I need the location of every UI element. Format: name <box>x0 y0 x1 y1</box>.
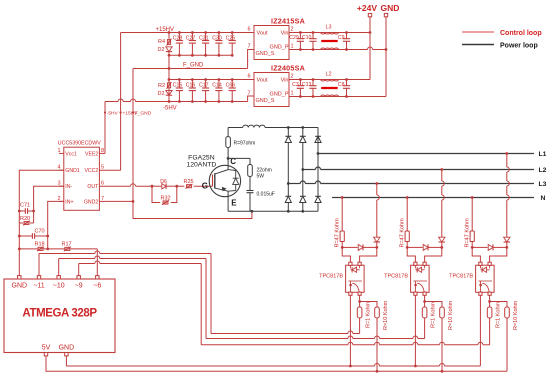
wire R4/D2 column <box>168 33 170 39</box>
wire +15HV left drop to VCC2 <box>120 33 122 171</box>
svg-text:2: 2 <box>291 74 294 80</box>
diode series horizontal #3 <box>472 246 487 248</box>
wire IN+ left <box>48 201 64 249</box>
svg-text:IZ2415SA: IZ2415SA <box>271 16 305 25</box>
wire MCU line 3 upper run <box>78 264 80 276</box>
wire MCU line 1 lower run <box>211 333 348 335</box>
diode bridge lower D4 <box>287 184 289 197</box>
svg-text:UCC5390ECDWV: UCC5390ECDWV <box>58 140 101 146</box>
svg-text:GND_S: GND_S <box>256 98 275 104</box>
svg-text:ATMEGA 328P: ATMEGA 328P <box>22 308 97 320</box>
svg-text:R=1 Kohm: R=1 Kohm <box>365 301 371 328</box>
node -5HV net label <box>104 111 106 113</box>
svg-text:-5HV: -5HV <box>107 111 119 117</box>
pin ~11 (top) <box>37 276 40 279</box>
legend power loop line <box>462 44 494 46</box>
svg-text:~10: ~10 <box>53 283 65 290</box>
svg-text:120ANTD: 120ANTD <box>186 162 216 169</box>
wire R1K to MCU line #3 <box>489 318 491 345</box>
svg-text:GND: GND <box>12 283 28 290</box>
svg-text:-5HV: -5HV <box>163 106 177 112</box>
wire MCU line 3 vertical <box>200 264 202 345</box>
wire -5HV rail <box>105 101 118 103</box>
resistor R32 parallel branch <box>152 186 160 202</box>
svg-text:C70: C70 <box>35 229 45 235</box>
svg-text:~6: ~6 <box>93 283 101 290</box>
svg-text:R4: R4 <box>158 39 165 45</box>
wire opto collector node #2 <box>424 295 426 301</box>
resistor R=10 Kohm #1 <box>360 302 377 308</box>
wire -5HV jog to IZ2405 pin7 <box>232 101 247 103</box>
diode series horizontal #2 <box>407 246 422 248</box>
wire IN- left <box>34 186 64 223</box>
wire R10K to 5V #3 <box>506 318 508 371</box>
svg-text:L2: L2 <box>539 167 547 174</box>
capacitor 0.015uF snubber <box>249 177 251 191</box>
svg-text:C71: C71 <box>20 203 30 209</box>
wire -5HV left drop to VEE2 <box>104 102 106 154</box>
svg-text:5W: 5W <box>257 174 265 180</box>
svg-text:R=47 Kohm: R=47 Kohm <box>465 218 471 248</box>
wire MCU line 2 lower run <box>206 338 348 340</box>
node F_GND net label <box>132 111 134 113</box>
wire collector node to snubber <box>228 157 250 159</box>
svg-text:6: 6 <box>247 27 250 33</box>
svg-text:R=47 Kohm: R=47 Kohm <box>335 218 341 248</box>
wire vertical link F_GND to -5HV column <box>168 55 170 101</box>
svg-text:TPC817B: TPC817B <box>449 273 473 279</box>
svg-text:L3: L3 <box>539 181 547 188</box>
svg-text:7: 7 <box>247 91 250 97</box>
wire opto emitter down #2 <box>414 295 416 366</box>
svg-text:IN+: IN+ <box>65 199 73 205</box>
node +15HV net label <box>120 111 122 113</box>
svg-text:0.015uF: 0.015uF <box>257 191 275 197</box>
wire F_GND jog to IZ2415 pin7 <box>248 50 254 69</box>
wire opto emitter down #3 <box>479 295 481 366</box>
svg-text:R=10 Kohm: R=10 Kohm <box>383 300 389 330</box>
wire LED cathode jog #2 <box>425 247 442 262</box>
svg-text:GND_P: GND_P <box>270 92 289 98</box>
wire IZ2415 GND_P line <box>289 49 368 51</box>
wire bridge top rail <box>317 128 319 154</box>
wire IZ2415 Vin line <box>289 32 370 34</box>
svg-text:Vcc1: Vcc1 <box>65 151 77 157</box>
svg-text:F_GND: F_GND <box>135 111 152 117</box>
resistor R=47 Kohm #2 <box>406 198 408 232</box>
wire opto collector node #3 <box>489 295 491 301</box>
wire VCC2 to +15HV <box>99 169 120 171</box>
wire R10K to 5V #2 <box>441 318 443 371</box>
wire R10K to 5V #1 <box>376 318 378 371</box>
svg-text:C10: C10 <box>302 35 312 41</box>
diode bridge upper D3 <box>317 128 319 137</box>
diode vertical to L3 #1 <box>374 237 380 242</box>
resistor R=97ohm <box>227 128 229 137</box>
wire L1 sense vertical #3 <box>506 154 508 168</box>
inductor work coil <box>243 125 265 127</box>
wire emitter rail <box>227 197 229 211</box>
svg-text:GND1: GND1 <box>65 168 80 174</box>
wire +24V vertical <box>369 17 371 80</box>
svg-text:Vin: Vin <box>281 78 289 84</box>
diode bridge lower D6 <box>317 154 319 197</box>
svg-text:R=47 Kohm: R=47 Kohm <box>400 218 406 248</box>
wire GND top pin to divider rail <box>18 249 20 276</box>
wire input divider rail <box>19 248 97 250</box>
wire gate <box>194 185 213 187</box>
wire GND1 left <box>19 170 64 249</box>
wire L3 sense vertical #1 <box>376 184 378 196</box>
svg-text:D2: D2 <box>158 91 165 97</box>
resistor R=10 Kohm #2 <box>425 302 442 308</box>
svg-text:GND2: GND2 <box>84 199 99 205</box>
wire LED cathode jog #3 <box>490 247 507 262</box>
pin GND (bottom) <box>65 353 68 356</box>
wire OUT <box>99 185 130 187</box>
node L2 tap 2 <box>440 168 443 171</box>
wire +5 Vout rail <box>169 79 254 81</box>
node L1 tap 3 <box>505 152 508 155</box>
wire F_GND to emitter rail <box>133 201 252 218</box>
wire line L2 <box>303 169 316 171</box>
wire bridge bottom rail <box>252 210 318 212</box>
svg-text:6: 6 <box>247 74 250 80</box>
svg-text:~9: ~9 <box>75 283 83 290</box>
svg-text:GND_S: GND_S <box>256 51 275 57</box>
svg-text:R=10 Kohm: R=10 Kohm <box>448 300 454 330</box>
wire GND2 <box>99 200 133 202</box>
svg-text:R=1 Kohm: R=1 Kohm <box>495 301 501 328</box>
wire IZ2405 GND_P line <box>289 96 386 98</box>
svg-text:OUT: OUT <box>87 184 99 190</box>
resistor R=1 Kohm #2 <box>422 307 427 318</box>
svg-text:C29: C29 <box>289 35 299 41</box>
svg-text:C9: C9 <box>338 35 345 41</box>
svg-text:VCC2: VCC2 <box>84 168 98 174</box>
svg-text:F_GND: F_GND <box>183 63 204 69</box>
wire LED anode jog #1 <box>342 247 350 262</box>
wire GND bottom rail <box>65 356 67 366</box>
svg-text:1: 1 <box>291 44 294 50</box>
resistor R=47 Kohm #1 <box>341 198 343 232</box>
resistor R=1 Kohm #1 <box>357 307 362 318</box>
svg-text:Vin: Vin <box>281 31 289 37</box>
svg-text:G: G <box>202 182 208 191</box>
svg-text:R2: R2 <box>158 83 165 89</box>
wire LED anode jog #2 <box>407 247 415 262</box>
wire collector <box>227 158 229 165</box>
diode bridge upper D2 <box>302 128 304 137</box>
wire 5V bottom rail <box>46 356 507 371</box>
svg-text:GND_P: GND_P <box>270 45 289 51</box>
svg-text:R=1 Kohm: R=1 Kohm <box>430 301 436 328</box>
svg-text:Power loop: Power loop <box>500 43 538 50</box>
node N tap 2 <box>406 196 409 199</box>
svg-text:GND: GND <box>59 345 75 352</box>
transistor Q1 IGBT symbol <box>209 165 240 196</box>
wire top DC line <box>228 127 243 129</box>
svg-text:Control loop: Control loop <box>500 30 542 37</box>
wire L2 sense vertical #2 <box>441 170 443 182</box>
node N tap 1 <box>341 196 344 199</box>
svg-text:TPC817B: TPC817B <box>319 273 343 279</box>
pin GND (top) <box>18 276 21 279</box>
wire MCU line 1 vertical <box>210 254 212 334</box>
svg-text:Vout: Vout <box>257 31 268 37</box>
resistor 22ohm 5W <box>248 165 253 177</box>
wire opto emitter down #1 <box>349 295 351 366</box>
svg-text:2: 2 <box>291 27 294 33</box>
wire line L3 <box>288 183 300 185</box>
microcontroller ATMEGA 328P box <box>4 279 115 353</box>
wire MCU line 2 vertical <box>205 259 207 339</box>
svg-text:7: 7 <box>247 44 250 50</box>
diode bridge upper D1 <box>287 128 289 137</box>
wire F_GND rail <box>133 68 248 70</box>
wire line N <box>332 197 534 199</box>
svg-text:L1: L1 <box>539 151 547 158</box>
svg-text:Vout: Vout <box>257 78 268 84</box>
pin ~6 (top) <box>96 276 99 279</box>
pin ~10 (top) <box>57 276 60 279</box>
diode vertical to L1 #3 <box>504 237 510 242</box>
svg-text:L3: L3 <box>326 25 332 31</box>
svg-text:VEE2: VEE2 <box>85 151 98 157</box>
wire IZ2405 Vin line <box>289 79 370 81</box>
legend control loop line <box>462 31 494 33</box>
svg-text:R=97ohm: R=97ohm <box>234 141 256 147</box>
diode bridge lower D5 <box>302 170 304 197</box>
wire VEE2 to -5HV <box>99 152 105 154</box>
wire F_GND left drop to GND2 <box>132 69 134 202</box>
svg-text:L2: L2 <box>326 72 332 78</box>
svg-text:R17: R17 <box>62 241 72 247</box>
wire LED anode jog #3 <box>472 247 480 262</box>
wire GND vertical <box>385 17 387 97</box>
wire line L1 <box>318 153 534 155</box>
svg-text:R18: R18 <box>35 241 45 247</box>
svg-text:+24V: +24V <box>357 3 377 13</box>
wire opto collector node #1 <box>359 295 361 301</box>
diode series horizontal #1 <box>342 246 357 248</box>
pin ~9 (top) <box>77 276 80 279</box>
svg-text:IZ2405SA: IZ2405SA <box>271 63 305 72</box>
wire R1K to MCU line #2 <box>424 318 426 339</box>
svg-text:R=10 Kohm: R=10 Kohm <box>513 300 519 330</box>
resistor R=1 Kohm #3 <box>487 307 492 318</box>
wire +15HV caps bottom rail <box>169 54 232 56</box>
svg-text:5V: 5V <box>42 345 51 352</box>
svg-text:~11: ~11 <box>33 283 44 290</box>
svg-text:IN-: IN- <box>65 184 72 190</box>
svg-text:TPC817B: TPC817B <box>384 273 408 279</box>
svg-text:E: E <box>231 199 237 208</box>
pin 5V (bottom) <box>44 353 47 356</box>
wire +15HV rail <box>121 32 254 34</box>
node N tap 3 <box>471 196 474 199</box>
svg-text:GND: GND <box>381 3 400 13</box>
svg-text:1: 1 <box>291 91 294 97</box>
wire R1K to MCU line #1 <box>359 318 361 334</box>
wire MCU line 3 lower run <box>201 344 348 346</box>
svg-text:N: N <box>541 195 546 202</box>
wire LED cathode jog #1 <box>360 247 377 262</box>
wire MCU line 1 upper run <box>38 254 40 276</box>
resistor R=47 Kohm #3 <box>471 198 473 232</box>
resistor R25 <box>177 185 185 187</box>
wire ~6 feedback from R17 rail <box>96 249 98 276</box>
diode vertical to L2 #2 <box>439 237 445 242</box>
resistor R=10 Kohm #3 <box>490 302 507 308</box>
node L3 tap 1 <box>375 182 378 185</box>
wire MCU line 2 upper run <box>58 259 60 276</box>
svg-text:D2: D2 <box>158 47 165 53</box>
